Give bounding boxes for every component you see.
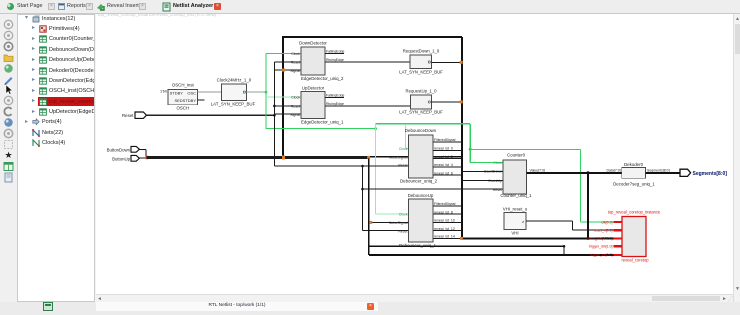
svg-text:FallingEdge: FallingEdge [326, 93, 345, 97]
svg-text:RequestUp_1_0: RequestUp_1_0 [405, 89, 437, 94]
svg-text:RisingEdge: RisingEdge [326, 58, 344, 62]
svg-text:EdgeDetector_uniq_1: EdgeDetector_uniq_1 [301, 120, 344, 125]
svg-text:STDBY: STDBY [170, 90, 184, 95]
svg-text:VHI: VHI [511, 230, 518, 235]
svg-text:UpDetector: UpDetector [302, 85, 325, 90]
svg-text:Reset: Reset [398, 229, 407, 233]
svg-text:Decoder7seg_uniq_1: Decoder7seg_uniq_1 [613, 181, 655, 186]
svg-text:NoiseSignal: NoiseSignal [389, 221, 408, 225]
svg-text:Clock: Clock [493, 161, 502, 165]
svg-text:ButtonUp: ButtonUp [112, 157, 131, 162]
svg-text:trigger_en[0:0]: trigger_en[0:0] [590, 253, 613, 257]
svg-text:trace_din[127:0]: trace_din[127:0] [587, 237, 612, 241]
svg-text:top_reveal_coretop_instance/re: top_reveal_coretop_instance/reveal_coret… [98, 12, 217, 17]
svg-text:1'b0: 1'b0 [160, 89, 167, 93]
svg-text:Reset: Reset [122, 113, 134, 118]
svg-text:NoiseSignal: NoiseSignal [389, 155, 408, 159]
svg-text:OSCH: OSCH [176, 105, 189, 110]
svg-text:EdgeDetector_uniq_2: EdgeDetector_uniq_2 [301, 76, 344, 81]
svg-text:Reset: Reset [291, 105, 300, 109]
svg-text:OSCH_inst: OSCH_inst [172, 82, 195, 87]
svg-text:trigger_din[1:0]: trigger_din[1:0] [589, 245, 612, 249]
svg-text:SEDSTDBY: SEDSTDBY [174, 98, 196, 103]
svg-text:clk[0:0]: clk[0:0] [601, 220, 612, 224]
svg-text:Dekoder0: Dekoder0 [624, 162, 644, 167]
svg-text:Debouncer_uniq_2: Debouncer_uniq_2 [400, 179, 438, 184]
svg-text:ButtonDown: ButtonDown [107, 147, 131, 152]
svg-text:top_reveal_coretop_instance: top_reveal_coretop_instance [608, 210, 661, 215]
svg-text:Clock24MHz_1_0: Clock24MHz_1_0 [217, 78, 252, 83]
svg-text:DownDetector: DownDetector [299, 41, 327, 46]
svg-text:LAT_SYN_KEEP_BUF: LAT_SYN_KEEP_BUF [399, 110, 443, 115]
svg-text:Clock: Clock [399, 147, 408, 151]
svg-text:Clock: Clock [291, 52, 300, 56]
svg-text:z: z [522, 220, 524, 224]
svg-text:Reset: Reset [493, 188, 502, 192]
svg-text:OSC: OSC [187, 90, 196, 95]
svg-text:Data[7:0]: Data[7:0] [606, 169, 620, 173]
svg-text:reveal_coretop: reveal_coretop [621, 258, 649, 263]
svg-text:VHI_reset_u: VHI_reset_u [503, 207, 528, 212]
svg-text:Signal: Signal [290, 113, 300, 117]
svg-text:FallingEdge: FallingEdge [326, 50, 345, 54]
svg-text:DebounceUp: DebounceUp [408, 193, 434, 198]
svg-text:Counter0: Counter0 [507, 152, 526, 157]
svg-text:Segments[8:0]: Segments[8:0] [693, 171, 728, 177]
svg-text:LAT_SYN_KEEP_BUF: LAT_SYN_KEEP_BUF [211, 101, 256, 106]
svg-text:LAT_SYN_KEEP_BUF: LAT_SYN_KEEP_BUF [399, 70, 443, 75]
svg-text:DebounceDown: DebounceDown [405, 128, 437, 133]
svg-text:Debouncer_uniq_1: Debouncer_uniq_1 [399, 243, 437, 248]
svg-text:Clock: Clock [399, 213, 408, 217]
svg-text:CountUp: CountUp [488, 179, 502, 183]
svg-text:RequestDown_1_0: RequestDown_1_0 [403, 48, 440, 53]
svg-text:reset_n[0:0]: reset_n[0:0] [594, 229, 613, 233]
svg-text:Reset: Reset [291, 61, 300, 65]
svg-text:Signal: Signal [290, 69, 300, 73]
svg-text:Counter_uniq_1: Counter_uniq_1 [500, 193, 532, 198]
svg-text:Clock: Clock [291, 96, 300, 100]
